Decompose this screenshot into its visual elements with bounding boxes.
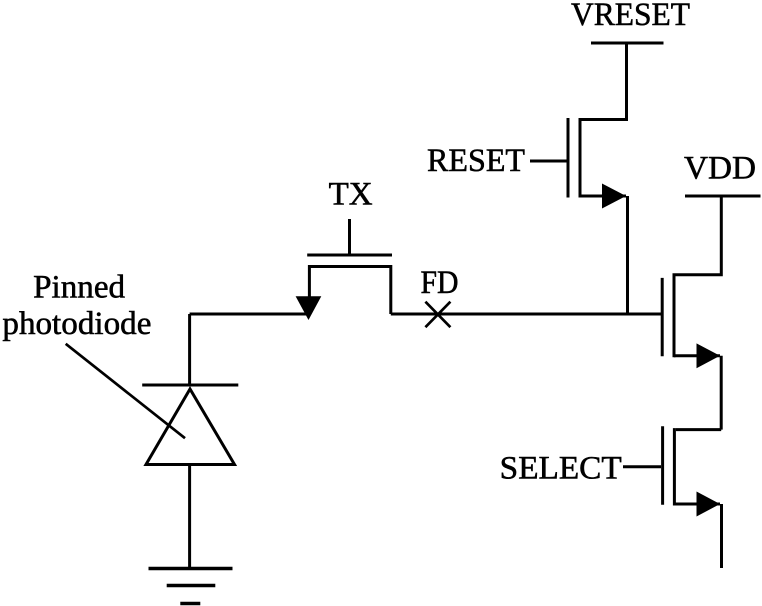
transistor M_SF source arrow: [697, 343, 721, 368]
svg-text:FD: FD: [421, 265, 459, 301]
transistor M_SF gate bar: [661, 278, 664, 356]
svg-text:RESET: RESET: [427, 143, 525, 179]
svg-text:SELECT: SELECT: [500, 451, 622, 487]
svg-text:TX: TX: [329, 177, 373, 213]
transistor M_TX source arrow: [296, 296, 322, 320]
wire VDD bar to SF drain: [676, 196, 722, 275]
wire RESET gate lead: [530, 160, 567, 163]
net VDD supply bar: [685, 195, 761, 198]
transistor M_SEL source arrow: [697, 492, 721, 517]
transistor M_RESET channel: [579, 118, 582, 198]
transistor M_SEL gate bar: [661, 426, 664, 505]
transistor M_SEL channel: [673, 428, 676, 505]
transistor M_TX channel: [309, 267, 390, 315]
svg-text:VRESET: VRESET: [571, 0, 690, 33]
wire SELECT source horizontal: [674, 503, 720, 506]
wire output column: [720, 504, 723, 568]
wire RESET source to FD node: [626, 196, 629, 314]
wire RESET source horizontal: [580, 195, 626, 198]
transistor M_RESET source arrow: [602, 184, 626, 209]
net VRESET supply bar: [591, 42, 664, 45]
node FD X mark: [425, 302, 450, 328]
svg-text:photodiode: photodiode: [2, 306, 151, 342]
transistor M_RESET gate bar: [567, 118, 570, 198]
wire SF source horizontal: [674, 354, 720, 357]
diode D_PD triangle: [146, 389, 235, 465]
ground bar 1: [149, 567, 233, 571]
wire TX gate lead: [348, 219, 351, 255]
wire FD node to SF gate: [391, 313, 662, 316]
transistor M_TX gate bar: [307, 254, 392, 257]
ground bar 3: [180, 602, 200, 606]
ground bar 2: [167, 584, 216, 588]
wire SELECT gate lead: [623, 465, 661, 468]
svg-text:Pinned: Pinned: [33, 269, 125, 305]
diode D_PD cathode bar: [142, 384, 238, 387]
svg-text:VDD: VDD: [684, 151, 756, 187]
wire photodiode anode lead: [188, 465, 191, 568]
wire photodiode to TX source: [190, 313, 310, 316]
wire SELECT drain horizontal: [676, 428, 721, 431]
transistor M_SF channel: [673, 273, 676, 357]
wire photodiode cathode lead: [188, 314, 191, 385]
pointer line from label to photodiode: [66, 344, 185, 438]
wire VRESET bar to RESET drain: [582, 43, 627, 120]
wire SF source to SELECT drain: [720, 356, 723, 430]
